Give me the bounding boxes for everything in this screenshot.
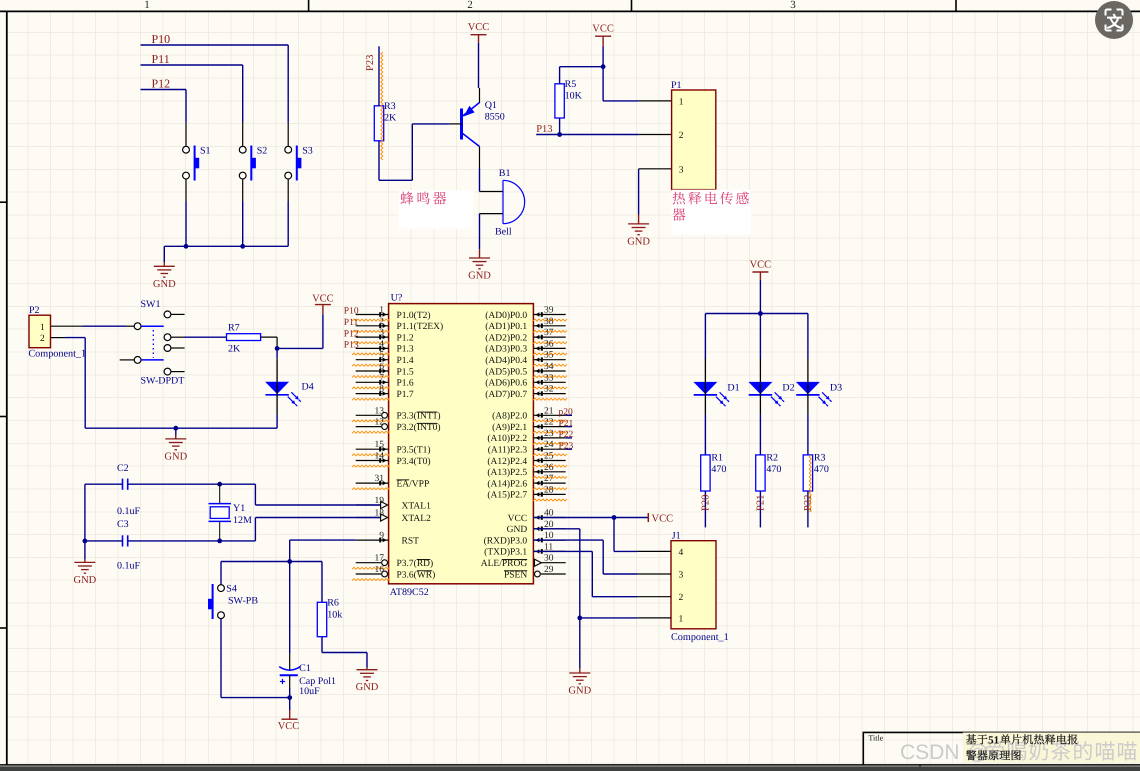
svg-text:C1: C1 xyxy=(299,663,311,674)
pin 1 J1 xyxy=(637,617,671,619)
wire RST row xyxy=(221,561,322,563)
svg-text:2K: 2K xyxy=(228,344,241,355)
wire R3 top xyxy=(378,46,380,106)
svg-text:GND: GND xyxy=(507,525,528,535)
svg-text:0.1uF: 0.1uF xyxy=(117,561,141,572)
svg-text:27: 27 xyxy=(544,474,554,484)
buzzer B1 xyxy=(502,180,504,223)
MCU pin 2 P1.1(T2EX) xyxy=(356,325,389,327)
wire Q1 base path xyxy=(412,123,449,125)
svg-text:3: 3 xyxy=(379,328,384,338)
junction S1 bus xyxy=(184,244,189,249)
svg-text:(A15)P2.7: (A15)P2.7 xyxy=(487,491,527,501)
svg-text:CSDN: CSDN xyxy=(900,741,960,764)
MCU pin 28 (A15)P2.7 xyxy=(533,493,565,495)
svg-text:22: 22 xyxy=(544,418,554,428)
wire P21 MCU xyxy=(566,426,572,428)
wire C1 top xyxy=(289,562,291,654)
title text line1 xyxy=(966,734,976,744)
svg-text:470: 470 xyxy=(814,464,829,475)
svg-text:1: 1 xyxy=(144,0,150,11)
svg-text:1: 1 xyxy=(40,323,45,333)
svg-text:2K: 2K xyxy=(384,113,397,124)
svg-text:1: 1 xyxy=(679,614,684,624)
svg-text:P22: P22 xyxy=(559,430,574,440)
MCU pin 12 P3.2(INT0) xyxy=(356,426,382,428)
wire R6 bottom xyxy=(321,637,323,653)
svg-text:SW-PB: SW-PB xyxy=(228,596,258,607)
svg-text:P21: P21 xyxy=(755,495,766,511)
resistor R1 LED xyxy=(701,455,710,491)
svg-text:P1.6: P1.6 xyxy=(397,379,414,389)
svg-text:(RXD)P3.0: (RXD)P3.0 xyxy=(484,536,528,546)
wire C2 to XTAL1 xyxy=(220,483,256,485)
svg-text:RST: RST xyxy=(402,536,420,546)
wire VCC pin40 xyxy=(533,517,648,519)
net label P21 rotated xyxy=(755,495,766,511)
svg-text:P10: P10 xyxy=(152,32,171,46)
svg-text:10uF: 10uF xyxy=(299,686,320,697)
wire P1 pin3 to ground xyxy=(638,169,640,215)
wire switch bus xyxy=(164,245,288,247)
MCU pin 26 (A13)P2.5 xyxy=(533,471,565,473)
wire P10 xyxy=(141,44,289,46)
svg-text:13: 13 xyxy=(375,406,385,416)
svg-text:P11: P11 xyxy=(152,52,170,66)
svg-text:VCC: VCC xyxy=(652,514,674,525)
svg-text:P3.4(T0): P3.4(T0) xyxy=(397,457,431,467)
svg-text:P3.7(RD): P3.7(RD) xyxy=(397,559,434,569)
border tick top 3 xyxy=(955,0,957,11)
svg-text:29: 29 xyxy=(544,565,554,575)
svg-text:34: 34 xyxy=(544,362,554,372)
svg-text:VCC: VCC xyxy=(312,294,334,305)
svg-text:D1: D1 xyxy=(727,383,739,394)
svg-text:51: 51 xyxy=(988,735,999,747)
sheet border bottom xyxy=(0,764,1140,766)
capacitor C2 xyxy=(122,479,124,490)
wire to R5 top xyxy=(560,66,604,68)
wire P12 xyxy=(141,89,187,91)
svg-text:1: 1 xyxy=(679,97,684,107)
svg-text:C2: C2 xyxy=(117,463,129,474)
pin D4 top xyxy=(276,348,278,358)
MCU pin 31 EA/VPP xyxy=(356,482,389,484)
wire D4 net ground xyxy=(175,428,177,439)
capacitor C1 xyxy=(279,667,300,671)
svg-text:31: 31 xyxy=(375,474,385,484)
MCU pin 15 P3.5(T1) xyxy=(356,448,389,450)
resistor R5 xyxy=(555,84,564,118)
svg-text:(A13)P2.5: (A13)P2.5 xyxy=(487,468,527,478)
connector P1 xyxy=(672,90,716,190)
MCU pin 18 XTAL2 xyxy=(356,517,381,519)
svg-text:(TXD)P3.1: (TXD)P3.1 xyxy=(484,548,527,558)
MCU pin 17 P3.7(RD) xyxy=(356,562,382,564)
svg-text:SW-DPDT: SW-DPDT xyxy=(141,376,185,387)
svg-text:(AD5)P0.5: (AD5)P0.5 xyxy=(485,367,527,377)
connector P2 xyxy=(29,315,51,348)
svg-text:3: 3 xyxy=(679,165,684,175)
wire C3 left xyxy=(85,540,123,542)
junction R7 VCC xyxy=(275,346,280,351)
wire D3 to R3 xyxy=(807,414,809,455)
pin 3 J1 xyxy=(637,573,671,575)
wire bell to ground xyxy=(479,214,481,250)
junction VCC pin40 xyxy=(612,515,617,520)
border tick left 1 xyxy=(0,201,7,203)
wire VCC to J1 pin4 xyxy=(613,518,615,552)
svg-text:B1: B1 xyxy=(499,168,511,179)
net label P23 rotated xyxy=(365,55,376,71)
resistor R7 xyxy=(227,334,261,341)
ground buzzer xyxy=(479,249,481,258)
svg-text:P1: P1 xyxy=(671,80,682,91)
svg-text:2: 2 xyxy=(679,131,684,141)
svg-text:P1.4: P1.4 xyxy=(397,356,414,366)
svg-text:C3: C3 xyxy=(117,519,129,530)
svg-text:D4: D4 xyxy=(302,382,314,393)
junction RST xyxy=(287,559,292,564)
MCU pin 21 (A8)P2.0 xyxy=(533,414,565,416)
MCU pin 13 P3.3(INT1) xyxy=(356,414,382,416)
wire SW1 to R7 xyxy=(184,336,227,338)
svg-text:25: 25 xyxy=(544,452,554,462)
svg-text:S2: S2 xyxy=(257,146,268,157)
crystal Y1 xyxy=(209,503,232,505)
svg-text:GND: GND xyxy=(74,575,97,586)
svg-text:SW1: SW1 xyxy=(141,299,161,310)
svg-text:8: 8 xyxy=(379,385,384,395)
wire below S3 xyxy=(287,202,289,247)
svg-text:R1: R1 xyxy=(711,453,723,464)
svg-text:P3.2(INT0): P3.2(INT0) xyxy=(397,423,441,433)
svg-text:R3: R3 xyxy=(814,453,826,464)
resistor R3 LED xyxy=(803,455,812,491)
svg-text:10K: 10K xyxy=(565,91,583,102)
MCU pin 34 (AD5)P0.5 xyxy=(533,370,565,372)
svg-text:D3: D3 xyxy=(830,383,842,394)
svg-text:J1: J1 xyxy=(672,531,681,542)
MCU pin 7 P1.6 xyxy=(356,381,389,383)
label 器 line2 xyxy=(672,208,685,220)
wire P2 pin2 net xyxy=(65,337,85,339)
MCU pin 4 P1.3 xyxy=(356,347,389,349)
label 蜂鸣器 xyxy=(400,192,413,205)
svg-text:14: 14 xyxy=(375,452,385,462)
wire Q1 collector down xyxy=(479,147,481,169)
svg-text:2: 2 xyxy=(679,593,684,603)
pin bell bottom xyxy=(480,213,504,215)
MCU pin 1 P1.0(T2) xyxy=(356,314,389,316)
svg-text:P13: P13 xyxy=(536,124,552,135)
svg-text:VCC: VCC xyxy=(278,721,300,732)
svg-text:R7: R7 xyxy=(228,323,240,334)
svg-text:D2: D2 xyxy=(782,383,794,394)
transistor Q1 xyxy=(462,103,480,147)
border tick top 2 xyxy=(631,0,633,11)
svg-text:S3: S3 xyxy=(302,146,313,157)
label 热释电传感 line1 xyxy=(673,192,686,205)
wire VCC to P1 pin1 xyxy=(602,67,604,101)
junction C3 xyxy=(217,539,222,544)
LED D2 xyxy=(748,382,772,394)
svg-text:35: 35 xyxy=(544,351,554,361)
svg-text:R5: R5 xyxy=(565,79,577,90)
MCU pin 25 (A12)P2.4 xyxy=(533,460,565,462)
switch S3 xyxy=(287,123,289,147)
svg-text:36: 36 xyxy=(544,339,554,349)
svg-text:7: 7 xyxy=(379,373,384,383)
svg-text:P2: P2 xyxy=(29,305,40,316)
resistor R3 buzzer xyxy=(374,106,383,141)
svg-text:(AD3)P0.3: (AD3)P0.3 xyxy=(485,345,527,355)
svg-text:Component_1: Component_1 xyxy=(28,349,86,360)
svg-text:37: 37 xyxy=(544,328,554,338)
wire VCC sensor down xyxy=(602,47,604,67)
wire P11 xyxy=(141,64,243,66)
svg-text:(A9)P2.1: (A9)P2.1 xyxy=(492,423,527,433)
svg-text:Q1: Q1 xyxy=(485,100,497,111)
svg-text:26: 26 xyxy=(544,463,554,473)
sheet border top xyxy=(0,10,1140,12)
MCU pin 16 P3.6(WR) xyxy=(356,573,382,575)
MCU pin 23 (A10)P2.2 xyxy=(533,437,565,439)
no-ERC squiggle R3 xyxy=(381,52,383,160)
wire to VCC bottom xyxy=(289,698,291,710)
border tick left 2 xyxy=(0,416,7,418)
MCU pin 33 (AD6)P0.6 xyxy=(533,381,565,383)
pin XTAL2 wire xyxy=(356,517,381,519)
svg-text:P1.7: P1.7 xyxy=(397,390,414,400)
svg-text:4: 4 xyxy=(679,548,684,558)
junction C2 xyxy=(217,482,222,487)
net label P20 rotated xyxy=(700,495,711,511)
svg-text:P1.0(T2): P1.0(T2) xyxy=(397,311,431,321)
wire P3.1 to J1 pin2 xyxy=(533,550,592,552)
svg-text:P11: P11 xyxy=(344,318,359,328)
pin P1.3 xyxy=(639,168,672,170)
sheet border left xyxy=(6,12,8,765)
svg-text:17: 17 xyxy=(375,554,385,564)
svg-text:33: 33 xyxy=(544,373,554,383)
wire SW1 pole2 stub xyxy=(120,359,134,361)
wire bus to D3 xyxy=(807,314,809,359)
pin P1.1 xyxy=(639,100,672,102)
wire C3 right xyxy=(128,540,220,542)
MCU pin 11 (TXD)P3.1 xyxy=(533,550,565,552)
border tick top 1 xyxy=(308,0,310,11)
wire GND pin20 xyxy=(533,528,579,530)
MCU pin 30 ALE/PROG xyxy=(541,562,565,564)
svg-text:5: 5 xyxy=(379,351,384,361)
capacitor C3 xyxy=(122,535,124,546)
MCU pin 37 (AD2)P0.2 xyxy=(533,336,565,338)
MCU pin 27 (A14)P2.6 xyxy=(533,482,565,484)
wire P23 MCU xyxy=(566,448,572,450)
wire D1 to R1 xyxy=(704,414,706,455)
svg-text:38: 38 xyxy=(544,317,554,327)
pin 4 J1 xyxy=(637,550,671,552)
svg-text:12M: 12M xyxy=(233,515,252,526)
title highlight bg xyxy=(963,733,1140,763)
MCU pin 5 P1.4 xyxy=(356,359,389,361)
svg-text:P3.5(T1): P3.5(T1) xyxy=(397,446,431,456)
wire RST down xyxy=(289,540,291,561)
svg-text:(A11)P2.3: (A11)P2.3 xyxy=(488,446,528,456)
svg-text:9: 9 xyxy=(379,531,384,541)
title block left line xyxy=(862,732,864,765)
svg-text:VCC: VCC xyxy=(468,22,490,33)
pin bell top xyxy=(480,191,504,193)
svg-text:8550: 8550 xyxy=(485,112,505,123)
translate icon xyxy=(1095,1,1133,39)
wire C2 left xyxy=(85,483,123,485)
svg-text:GND: GND xyxy=(468,271,491,282)
svg-text:470: 470 xyxy=(766,464,781,475)
ground switches xyxy=(163,262,165,266)
svg-text:(A14)P2.6: (A14)P2.6 xyxy=(487,479,527,489)
MCU pin 19 XTAL1 xyxy=(356,504,381,506)
wire R3 to net P22 xyxy=(807,491,809,527)
wire S4 top xyxy=(220,562,222,585)
svg-text:2: 2 xyxy=(467,0,473,11)
svg-text:P3.6(WR): P3.6(WR) xyxy=(397,570,436,580)
svg-text:12: 12 xyxy=(375,418,385,428)
svg-text:28: 28 xyxy=(544,485,554,495)
wire C1 bottom xyxy=(289,675,291,688)
power VCC D4 xyxy=(322,305,324,315)
bottom dark bar xyxy=(0,766,1140,771)
MCU pin 29 PSEN xyxy=(541,573,566,575)
svg-text:GND: GND xyxy=(153,279,176,290)
svg-text:15: 15 xyxy=(375,440,385,450)
svg-text:4: 4 xyxy=(379,339,384,349)
resistor R2 LED xyxy=(756,455,765,491)
wire bus to ground xyxy=(163,246,165,262)
wire S4 bottom xyxy=(220,619,222,698)
wire VCC to Q1 emitter xyxy=(478,43,480,88)
wire R1 to net P20 xyxy=(704,491,706,527)
pin Q1 base xyxy=(450,123,462,125)
junction VCC sensor xyxy=(601,64,606,69)
svg-text:3: 3 xyxy=(679,570,684,580)
wire P2 pin1 to SW1 xyxy=(83,325,126,327)
svg-text:Component_1: Component_1 xyxy=(671,632,729,643)
svg-text:2: 2 xyxy=(379,317,384,327)
LED D4 xyxy=(265,382,289,394)
ground sensor xyxy=(638,215,640,224)
MCU pin 3 P1.2 xyxy=(356,336,389,338)
wire D4 bottom xyxy=(276,414,278,428)
svg-text:S1: S1 xyxy=(200,146,211,157)
svg-text:XTAL2: XTAL2 xyxy=(402,514,432,524)
svg-text:0.1uF: 0.1uF xyxy=(117,506,141,517)
svg-text:VCC: VCC xyxy=(750,260,772,271)
switch S1 xyxy=(185,123,187,147)
text highlight 蜂鸣器 bg xyxy=(399,190,474,229)
svg-text:(AD0)P0.0: (AD0)P0.0 xyxy=(485,311,527,321)
wire P22 MCU xyxy=(566,437,572,439)
wire D2 to R2 xyxy=(759,414,761,455)
svg-text:R2: R2 xyxy=(766,453,778,464)
wire RST xyxy=(290,539,356,541)
svg-text:32: 32 xyxy=(544,385,554,395)
svg-text:P1.1(T2EX): P1.1(T2EX) xyxy=(397,322,444,332)
ground R6 xyxy=(366,668,368,670)
wire R6 top xyxy=(321,562,323,603)
svg-text:P13: P13 xyxy=(344,341,359,351)
svg-text:XTAL1: XTAL1 xyxy=(402,501,432,511)
svg-text:6: 6 xyxy=(379,362,384,372)
junction caps ground xyxy=(83,539,88,544)
no-ERC squiggle R3 LED xyxy=(809,455,811,512)
svg-text:P12: P12 xyxy=(152,76,171,90)
switch SW1 SW-DPDT xyxy=(134,323,141,330)
svg-text:P10: P10 xyxy=(344,307,359,317)
svg-text:(AD1)P0.1: (AD1)P0.1 xyxy=(485,322,527,332)
svg-text:P1.2: P1.2 xyxy=(397,333,414,343)
title block top line xyxy=(863,731,1140,733)
svg-text:Title: Title xyxy=(868,734,883,743)
junction ground D4 net xyxy=(173,426,178,431)
svg-text:P1.5: P1.5 xyxy=(397,367,414,377)
wire P13 net xyxy=(536,134,638,136)
wire R5 bottom xyxy=(559,118,561,135)
svg-text:Y1: Y1 xyxy=(233,503,245,514)
svg-text:16: 16 xyxy=(375,565,385,575)
svg-text:23: 23 xyxy=(544,429,554,439)
net label P22 rotated xyxy=(803,495,814,511)
title text line2 xyxy=(966,750,976,760)
text highlight 热释电传感器 bg xyxy=(672,190,751,235)
svg-text:AT89C52: AT89C52 xyxy=(390,587,429,598)
connector J1 xyxy=(671,541,716,629)
wire VCC D4 branch xyxy=(277,347,323,349)
svg-text:P20: P20 xyxy=(700,495,711,511)
wire p20 MCU xyxy=(566,414,572,416)
border tick left 3 xyxy=(0,627,7,629)
power VCC right xyxy=(647,513,649,522)
MCU pin 24 (A11)P2.3 xyxy=(533,448,565,450)
svg-text:24: 24 xyxy=(544,440,554,450)
svg-text:PSEN: PSEN xyxy=(504,570,527,580)
MCU pin 36 (AD3)P0.3 xyxy=(533,347,565,349)
MCU pin 39 (AD0)P0.0 xyxy=(533,314,565,316)
MCU pin 14 P3.4(T0) xyxy=(356,460,389,462)
svg-text:10k: 10k xyxy=(327,610,342,621)
svg-text:P12: P12 xyxy=(344,329,359,339)
svg-text:(A12)P2.4: (A12)P2.4 xyxy=(487,457,527,467)
MCU pin 22 (A9)P2.1 xyxy=(533,426,565,428)
svg-text:(A8)P2.0: (A8)P2.0 xyxy=(492,412,527,422)
svg-text:GND: GND xyxy=(568,686,591,697)
wire C2 right xyxy=(128,483,220,485)
svg-text:p20: p20 xyxy=(559,408,574,418)
svg-text:Bell: Bell xyxy=(495,227,512,238)
MCU pin 8 P1.7 xyxy=(356,393,389,395)
switch S2 xyxy=(242,123,244,147)
svg-text:1: 1 xyxy=(379,306,384,316)
junction C1 VCC xyxy=(287,695,292,700)
svg-text:R6: R6 xyxy=(327,598,339,609)
MCU pin 9 RST xyxy=(356,539,389,541)
wire R2 to net P21 xyxy=(759,491,761,527)
MCU pin 20 GND xyxy=(533,528,565,530)
resistor R6 xyxy=(317,602,326,636)
junction S2 bus xyxy=(240,244,245,249)
wire R7 right xyxy=(261,336,278,338)
